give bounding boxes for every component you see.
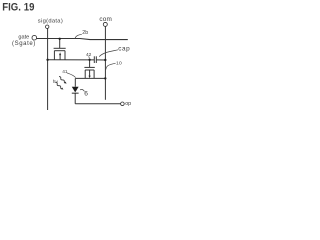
wire gate line (horizontal scan line) [36,39,127,40]
svg-text:(Sgate): (Sgate) [12,41,36,47]
junction dot transistor 42 rail to com line [104,77,106,79]
svg-text:op: op [125,101,131,107]
terminal circle gate [32,35,37,40]
transistor 42 gate bar [84,66,94,68]
svg-text:6: 6 [84,91,88,98]
transistor 41 source leg [53,51,55,60]
wire bottom output wire to op terminal [75,103,120,105]
wire com line (vertical) [104,26,106,99]
leader arrow for label 42 to storage node [88,56,91,58]
leader for label 6 to photodiode [80,89,84,91]
transistor 42 bulk arrowhead (down) [89,76,91,79]
transistor 41 bulk lead [59,54,61,60]
leader for label cap to capacitor [99,50,118,57]
junction dot sig line to transistor 41 [46,59,48,61]
capacitor cap right plate [95,56,97,63]
wire transistor 42 gate lead from node to gate bar [89,60,91,68]
light arrow hv lower [55,82,61,88]
transistor 41 gate bar [54,47,66,49]
capacitor cap left plate [93,56,95,63]
light arrow hv upper [59,77,65,83]
terminal circle sig [46,25,49,28]
transistor 41 bulk arrowhead (up) [59,52,61,55]
svg-text:FIG. 19: FIG. 19 [2,2,34,14]
junction dot capacitor to com line [104,59,106,61]
wire sig data line (vertical) [47,28,49,110]
transistor 42 source leg [84,70,86,78]
svg-text:42: 42 [86,52,92,58]
terminal circle com [103,22,107,26]
transistor 42 channel bar [85,69,94,71]
junction dot on gate line at transistor 41 gate tap [59,38,61,40]
svg-text:hν: hν [53,79,59,85]
svg-text:2b: 2b [82,30,88,36]
junction dot storage node (cap / gate of 42) [88,59,90,61]
transistor 41 gate lead [59,39,61,48]
leader for label 10 to com line [106,63,116,69]
svg-text:cap: cap [118,45,130,52]
transistor 41 drain leg [64,51,66,60]
transistor 42 drain leg [93,70,95,78]
leader for label 41 to transistor drain corner [67,73,76,78]
svg-text:com: com [99,16,112,23]
photodiode 6 triangle [72,87,79,93]
terminal circle op [121,102,125,106]
wire diode cathode stem [74,93,76,103]
svg-text:gate: gate [18,35,29,41]
transistor 42 (driver TFT) [84,67,94,78]
svg-text:10: 10 [116,61,122,67]
leader for label 2b to gate line [75,34,82,38]
transistor 42 bulk lead [89,70,91,76]
transistor 41 (top, sampling TFT) [54,39,66,60]
wire transistor 42 bottom rail to com junction [75,77,105,79]
wire diode anode lead (vertical) [74,78,76,86]
transistor 41 channel bar [54,50,65,52]
capacitor cap plates [94,56,96,63]
wire storage node row: sig to capacitor left plate [48,59,95,61]
svg-text:41: 41 [62,69,68,75]
wire capacitor right plate to com line [96,59,105,61]
photodiode 6 cathode bar [72,92,79,95]
svg-text:sig(data): sig(data) [38,19,63,25]
